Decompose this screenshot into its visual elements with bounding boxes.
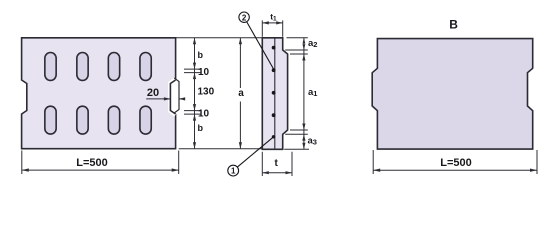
dimension line a2/a1/a3 vertical — [303, 38, 305, 150]
rivet dot 4 — [272, 113, 276, 117]
slot hole row1 col3 — [108, 53, 119, 81]
dimension a: vertical line with gap for label — [239, 38, 241, 149]
dimension L=500 right: arrowheads — [373, 169, 537, 172]
svg-text:b: b — [198, 123, 204, 133]
svg-text:a: a — [238, 88, 244, 99]
svg-text:130: 130 — [198, 87, 215, 98]
slot hole row1 col2 — [77, 53, 88, 81]
slot hole row1 col4 — [140, 53, 151, 81]
svg-text:L=500: L=500 — [440, 157, 472, 169]
svg-text:3: 3 — [313, 138, 317, 147]
slot hole row2 col1 — [45, 106, 56, 134]
extension line bottom (plate bottom to section) — [179, 148, 263, 150]
section view: rail with splice bar profile — [262, 38, 287, 150]
svg-text:L=500: L=500 — [76, 157, 108, 169]
dimension t1: extension lines and dimension line — [262, 20, 282, 36]
slot hole row1 col1 — [45, 53, 56, 81]
callout circle 2 — [239, 12, 249, 22]
dimension t arrowheads — [262, 171, 292, 174]
svg-text:b: b — [198, 50, 204, 60]
leader line callout 2 — [247, 22, 274, 70]
cover panel B with inward break notches — [372, 39, 533, 150]
leader line callout 1 — [238, 137, 274, 167]
svg-text:1: 1 — [313, 89, 317, 98]
extension line top (plate top to section) — [176, 37, 263, 39]
svg-text:1: 1 — [231, 167, 236, 176]
a2/a1/a3 arrowheads — [302, 38, 305, 150]
rivet dot 1 — [272, 46, 276, 50]
dimension L=500 right: extension and dimension lines — [373, 150, 537, 174]
top view tray plate with inward break notches on both ends — [22, 38, 176, 149]
rivet dot 3 — [272, 91, 276, 95]
dimension L=500 left: arrowheads — [22, 168, 179, 171]
slot hole row2 col3 — [108, 106, 119, 134]
slot hole row2 col2 — [77, 106, 88, 134]
chained dimension b/10/130/10/b: vertical line — [194, 38, 196, 149]
svg-text:B: B — [449, 18, 458, 32]
white break gap along plate right jog — [170, 79, 175, 115]
dimension L=500 left: extension and dimension lines — [22, 151, 179, 175]
svg-text:t: t — [275, 158, 279, 169]
rivet dot 2 — [272, 68, 276, 72]
svg-text:10: 10 — [198, 67, 210, 78]
slot hole row2 col4 — [140, 106, 151, 134]
svg-text:20: 20 — [147, 87, 159, 99]
svg-text:2: 2 — [242, 13, 247, 22]
leader 1 end dot — [272, 135, 275, 138]
svg-text:2: 2 — [313, 40, 317, 49]
svg-text:1: 1 — [273, 15, 277, 22]
callout circle 1 — [228, 165, 239, 176]
dimension a arrowheads — [239, 38, 242, 149]
chained dimension ticks — [184, 69, 202, 114]
extension lines right of section for a2/a1/a3 — [284, 38, 309, 150]
adjacent tray section break edge — [174, 78, 179, 113]
dimension 20 between tray ends — [146, 98, 185, 100]
svg-text:10: 10 — [198, 109, 210, 120]
chained dimension arrowheads — [193, 38, 196, 149]
dimension t1 arrowheads — [262, 21, 282, 24]
dimension t: extension lines and dimension line — [262, 152, 292, 176]
section view: joint line between splice and rail — [274, 38, 276, 150]
